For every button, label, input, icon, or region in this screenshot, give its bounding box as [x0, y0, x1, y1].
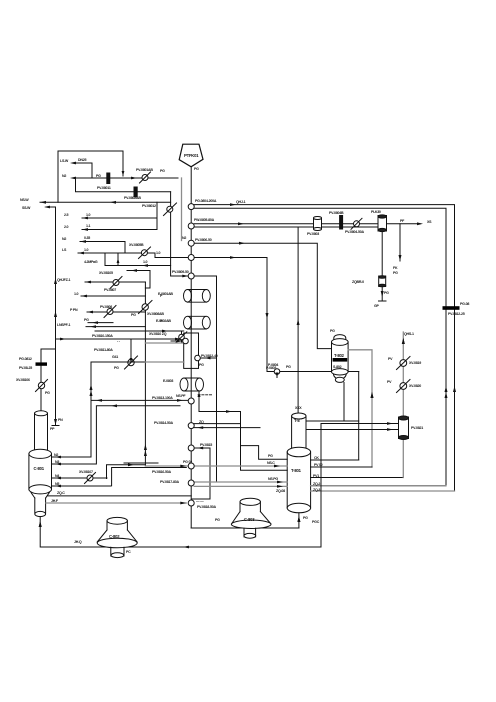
svg-text:PG: PG [45, 391, 50, 395]
wire C nozzle 486 [52, 485, 112, 487]
wire box B feed [171, 340, 183, 342]
wire condensate drop [381, 232, 383, 277]
svg-text:N4: N4 [55, 474, 59, 478]
svg-text:QHJFZ-1: QHJFZ-1 [57, 278, 70, 282]
svg-text:PGC: PGC [312, 520, 320, 524]
svg-text:PG: PG [330, 329, 335, 333]
svg-text:PV-0815: PV-0815 [200, 443, 212, 447]
svg-text:PG: PG [268, 454, 273, 458]
main column T-102 [287, 413, 310, 513]
battery-limit flag left [36, 362, 48, 365]
svg-text:PG: PG [84, 318, 89, 322]
svg-text:PV-0806-50: PV-0806-50 [195, 238, 212, 242]
svg-text:P PN: P PN [70, 308, 78, 312]
svg-text:C-801: C-801 [34, 466, 45, 471]
svg-text:PG-0804-200A: PG-0804-200A [195, 199, 217, 203]
svg-text:PV-0808: PV-0808 [100, 305, 112, 309]
wire vent sub header [171, 192, 189, 276]
svg-text:T-8: T-8 [294, 418, 300, 423]
svg-text:PG: PG [199, 363, 204, 367]
wire relief row 1 [82, 202, 157, 218]
svg-text:LS.W: LS.W [60, 159, 69, 163]
vent header overlay through exchangers and seal box [190, 290, 192, 369]
svg-text:PG-0812: PG-0812 [19, 357, 32, 361]
svg-text:PTFK01: PTFK01 [184, 153, 199, 158]
wire E3 bottoms to column T [199, 391, 287, 470]
wire jog to utility header [127, 271, 150, 289]
svg-text:NS.C: NS.C [267, 461, 275, 465]
wire N2 inlet [74, 177, 178, 179]
small column T-103 [332, 335, 349, 383]
flange G on vent header [188, 423, 194, 429]
flange C on vent header [188, 240, 194, 246]
drain bottom left column line [52, 418, 59, 426]
wire drop from small column [343, 383, 345, 422]
svg-text:2.5: 2.5 [64, 213, 68, 217]
svg-text:E-0801AB: E-0801AB [158, 292, 173, 296]
wire water inlet [74, 163, 92, 178]
inline pot V2 [378, 216, 387, 232]
wire C nozzle 464 [52, 463, 96, 465]
svg-text:PV-0817-80A: PV-0817-80A [160, 480, 179, 484]
wire relief row 2 [82, 218, 157, 230]
svg-text:4.2MPaG: 4.2MPaG [84, 260, 98, 264]
wire steam line [76, 178, 171, 192]
valve hand mid [130, 339, 132, 359]
wire row 296 [81, 295, 145, 297]
svg-text:PG-08: PG-08 [460, 302, 469, 306]
utility header vertical [144, 282, 146, 466]
wire box B top [96, 406, 180, 464]
svg-text:N2: N2 [62, 174, 66, 178]
svg-text:QHJ-1: QHJ-1 [236, 200, 246, 204]
svg-text:PV-0804-50A: PV-0804-50A [345, 230, 364, 234]
svg-text:C-803: C-803 [244, 517, 255, 522]
flange J on vent header [188, 480, 194, 486]
wire flare branch [85, 281, 145, 283]
svg-text:E-0802AB: E-0802AB [156, 319, 171, 323]
svg-text:N3: N3 [55, 460, 59, 464]
svg-text:PG: PG [384, 291, 389, 295]
wire row 327 [86, 326, 145, 328]
gray N2 purge [181, 178, 183, 241]
flange B on vent header [188, 223, 194, 229]
svg-text:PV-0814-50A: PV-0814-50A [154, 421, 173, 425]
svg-text:S-802: S-802 [333, 365, 342, 369]
valve hand 312 [107, 309, 113, 315]
level band T-103 [333, 358, 348, 362]
svg-text:PI-K30: PI-K30 [371, 210, 381, 214]
wire T nozzle 477.5 [311, 477, 404, 479]
wire long steam header [56, 338, 184, 340]
exchanger E1 [184, 290, 211, 303]
svg-text:LNSPF-1: LNSPF-1 [57, 323, 70, 327]
wire line to flange F [91, 399, 188, 401]
svg-text:PV-0818-50A: PV-0818-50A [197, 505, 216, 509]
wire C nozzle 495 to blower1 [48, 495, 192, 497]
svg-text:PV-0802AB: PV-0802AB [124, 196, 141, 200]
wire C nozzle 478 [52, 477, 108, 479]
svg-text:PV 02: PV 02 [314, 463, 323, 467]
flange H on vent header [188, 445, 194, 451]
svg-text:1.0: 1.0 [156, 251, 160, 255]
wire staircase row478 to utility [107, 465, 146, 479]
svg-text:PV1: PV1 [313, 474, 319, 478]
svg-text:XV-0805B: XV-0805B [129, 243, 144, 247]
wire T nozzle 467 [311, 466, 372, 468]
wire row 331 [95, 330, 184, 332]
condensate pot [379, 276, 386, 287]
svg-text:PV-08-25: PV-08-25 [19, 366, 32, 370]
wire line C to small column [194, 243, 331, 348]
drain line pair right [194, 223, 420, 225]
svg-text:PV-0804B: PV-0804B [329, 211, 344, 215]
valve hand seal feed [181, 331, 183, 343]
svg-text:PV-08011: PV-08011 [97, 186, 111, 190]
valve bar steam [134, 187, 137, 197]
svg-text:PC: PC [126, 550, 131, 554]
valve hand HV [142, 175, 148, 181]
wire C bottom loop [40, 517, 321, 548]
svg-text:N5: N5 [55, 482, 59, 486]
wire vent branch [399, 224, 401, 261]
exchanger E2 [184, 316, 211, 329]
battery-limit flag right [443, 306, 460, 310]
flange I on vent header [188, 463, 194, 469]
svg-text:PG: PG [393, 271, 398, 275]
left column C-101 [29, 411, 52, 517]
svg-text:PG: PG [303, 516, 308, 520]
wire short y463 [124, 462, 158, 464]
svg-text:PG: PG [96, 174, 101, 178]
svg-text:JH.F: JH.F [51, 499, 59, 503]
svg-text:SS.W: SS.W [22, 206, 31, 210]
gray pair J [194, 482, 287, 486]
flow arrows [39, 162, 456, 549]
svg-text:PN: PN [58, 418, 63, 422]
wire C nozzle 457 [52, 456, 92, 458]
svg-text:JH.Q: JH.Q [74, 540, 82, 544]
svg-text:PV-0812-40: PV-0812-40 [201, 354, 218, 358]
flange on seal box right [195, 355, 201, 361]
wire flare header [40, 201, 171, 203]
wire G lines [194, 424, 260, 428]
recycle pair to top right [194, 205, 454, 491]
vent header lower segment and seal loop [191, 448, 210, 528]
svg-text:1.0: 1.0 [143, 260, 147, 264]
svg-text:XV-0820: XV-0820 [409, 384, 421, 388]
flange D on vent header [188, 255, 194, 261]
gray line K y503 [46, 502, 186, 504]
valve hand row4 [141, 250, 147, 256]
feed box top-left [58, 151, 123, 202]
svg-text:G41: G41 [112, 355, 118, 359]
svg-text:DN25: DN25 [78, 158, 86, 162]
valve hand vent [167, 206, 173, 212]
svg-text:T-802: T-802 [334, 353, 345, 358]
flange A on vent header [188, 204, 194, 210]
svg-text:PV-0807: PV-0807 [104, 288, 116, 292]
svg-text:PG: PG [114, 366, 119, 370]
svg-text:XV-0819: XV-0819 [409, 361, 421, 365]
svg-text:QHS-1: QHS-1 [404, 332, 414, 336]
seal box [184, 333, 199, 368]
svg-text:PG: PG [194, 167, 199, 171]
svg-text:XV-08106: XV-08106 [16, 378, 30, 382]
blower C-102 bottom left [97, 517, 137, 557]
svg-text:N2: N2 [54, 453, 58, 457]
svg-text:1.0: 1.0 [74, 292, 78, 296]
svg-text:ZQBR-0: ZQBR-0 [352, 280, 364, 284]
wire staircase row486 [112, 468, 187, 486]
valve hand flare [113, 280, 119, 286]
wire E branch right [194, 276, 216, 482]
blower C-103 bottom center [231, 498, 271, 538]
svg-text:ZQ.C: ZQ.C [57, 491, 65, 495]
svg-text:CK: CK [314, 456, 319, 460]
svg-text:PV-0801AB: PV-0801AB [136, 168, 153, 172]
svg-text:XV-0808AB: XV-0808AB [147, 312, 164, 316]
svg-text:0.35: 0.35 [84, 236, 90, 240]
svg-text:N2: N2 [62, 237, 66, 241]
flange on seal box left [183, 338, 189, 344]
wire line D to flange P [194, 258, 359, 372]
wire row 322 [88, 322, 113, 324]
wire relief row 3 [80, 242, 125, 254]
circle D feed flange [274, 369, 280, 375]
svg-text:XV-08107: XV-08107 [79, 470, 93, 474]
svg-text:N2: N2 [182, 236, 186, 240]
wire T nozzle 460 [311, 459, 359, 461]
wire T103 gray riser [348, 350, 372, 467]
svg-text:NS PG: NS PG [268, 477, 278, 481]
flange K on vent header [188, 500, 194, 506]
wire T bottom drop [298, 513, 300, 528]
vent stack pentagon [179, 144, 203, 167]
trap loop under row4 [105, 253, 171, 266]
svg-text:PG: PG [160, 169, 165, 173]
wire box B outlet [200, 357, 216, 359]
flange F on vent header [188, 398, 194, 404]
gray riser x403 [402, 332, 404, 478]
svg-text:1.0: 1.0 [86, 213, 90, 217]
wire filter feeds [306, 424, 399, 430]
svg-text:C-802: C-802 [109, 534, 120, 539]
svg-text:NS PF: NS PF [176, 394, 186, 398]
svg-text:PV-0803: PV-0803 [307, 232, 319, 236]
wire riser x358 [358, 372, 360, 461]
wire T gray 485.5 [311, 485, 446, 487]
svg-text:E-0803: E-0803 [163, 379, 173, 383]
gray y362 overlay [145, 361, 183, 363]
valve hand 478 [87, 475, 93, 481]
svg-text:PV-0816-50A: PV-0816-50A [152, 470, 171, 474]
svg-text:XXX: XXX [295, 406, 302, 410]
svg-text:PV-0812-25: PV-0812-25 [448, 312, 465, 316]
svg-text:PV-0821: PV-0821 [411, 426, 423, 430]
svg-text:PV-0810-150A: PV-0810-150A [92, 334, 113, 338]
svg-text:— —: — — [196, 499, 204, 503]
svg-text:PG: PG [215, 518, 220, 522]
filter strainer [399, 417, 409, 439]
svg-text:NS.W: NS.W [20, 198, 29, 202]
svg-text:PG 02: PG 02 [183, 460, 192, 464]
svg-text:XV-08105: XV-08105 [99, 271, 113, 275]
valve bar drain [340, 216, 343, 230]
svg-text:1.0: 1.0 [84, 248, 88, 252]
exchanger E3 [180, 378, 204, 391]
svg-text:PV-0813-100A: PV-0813-100A [152, 396, 173, 400]
svg-text:ZQ-08: ZQ-08 [276, 489, 285, 493]
wire relief row 4 [78, 253, 188, 258]
wire T gray 491 [311, 490, 455, 492]
svg-text:2.0: 2.0 [64, 225, 68, 229]
wire T neck riser [297, 227, 299, 413]
wire drain tail [379, 287, 387, 302]
svg-text:PV-0809-50: PV-0809-50 [172, 270, 189, 274]
wire row 312 [87, 311, 145, 313]
valve bar N2 [107, 173, 110, 184]
wire x321 drop [320, 424, 322, 548]
valve hand 386 [400, 383, 407, 390]
valve hand 363 [400, 360, 407, 367]
svg-text:PV-08012: PV-08012 [142, 204, 156, 208]
svg-text:ZQ: ZQ [199, 420, 204, 424]
valve hand drain [354, 221, 360, 227]
svg-text:T-801: T-801 [291, 468, 302, 473]
svg-text:1.1: 1.1 [86, 224, 90, 228]
svg-text:P-0804: P-0804 [268, 363, 278, 367]
vent header vertical [190, 167, 192, 448]
svg-text:FK: FK [393, 266, 398, 270]
wire branch to left column [41, 349, 56, 411]
valve hand feed [38, 382, 44, 388]
wire cooling water drop [46, 207, 56, 422]
gray line I y466 [145, 465, 287, 467]
valve hand on utility header [142, 304, 148, 310]
svg-text:PV-0811-80A: PV-0811-80A [94, 348, 113, 352]
svg-text:PG: PG [131, 313, 136, 317]
svg-text:PG: PG [286, 365, 291, 369]
wire bottom header y528 [191, 527, 299, 529]
flange E on vent header [188, 273, 194, 279]
svg-text:PW-0805-80A: PW-0805-80A [194, 218, 215, 222]
wire neck side line [306, 420, 359, 422]
inline pot V1 [314, 218, 322, 229]
svg-text:ZQ-2: ZQ-2 [313, 482, 320, 486]
svg-text:XV-0810 ZQ: XV-0810 ZQ [149, 332, 167, 336]
wire box A top [91, 362, 184, 457]
dashed instrument stub [198, 394, 213, 396]
gray stub to seal box [145, 342, 183, 344]
svg-text:ZQ-3: ZQ-3 [313, 488, 320, 492]
